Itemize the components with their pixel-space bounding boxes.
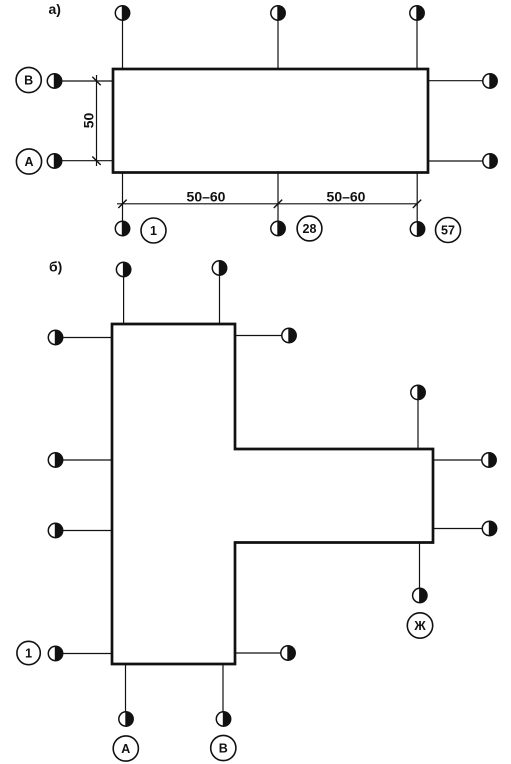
svg-text:50: 50: [81, 113, 97, 129]
svg-text:А: А: [121, 742, 130, 756]
svg-text:1: 1: [150, 224, 157, 238]
svg-text:57: 57: [441, 224, 455, 238]
svg-text:50–60: 50–60: [187, 189, 226, 205]
svg-text:Ж: Ж: [413, 619, 426, 633]
svg-text:28: 28: [303, 222, 317, 236]
svg-text:1: 1: [25, 647, 32, 661]
svg-text:А: А: [24, 155, 33, 169]
svg-text:50–60: 50–60: [327, 189, 366, 205]
svg-text:б): б): [49, 259, 62, 275]
svg-text:а): а): [49, 1, 61, 17]
svg-text:В: В: [219, 742, 228, 756]
svg-text:В: В: [24, 74, 33, 88]
